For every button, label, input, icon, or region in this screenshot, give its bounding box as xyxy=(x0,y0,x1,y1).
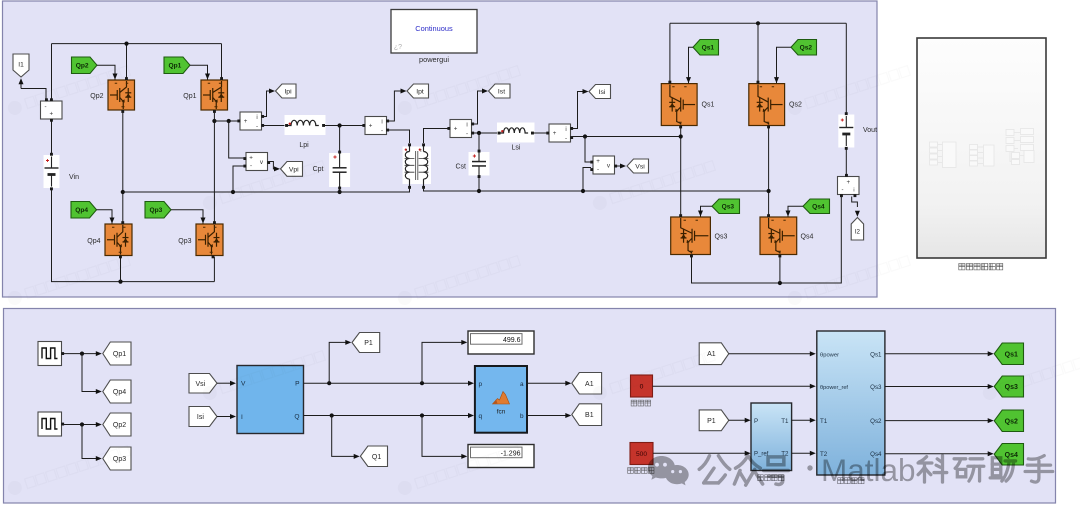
watermark char GONG xyxy=(699,456,730,483)
svg-text:Isi: Isi xyxy=(599,89,606,96)
label Qs2 xyxy=(789,102,802,109)
IGBT Qs2 xyxy=(749,81,785,129)
label Cst xyxy=(456,164,467,171)
svg-text:Qs1: Qs1 xyxy=(870,352,882,359)
label Cpt xyxy=(313,166,324,173)
svg-text:i: i xyxy=(381,120,382,126)
svg-text:+: + xyxy=(553,130,557,137)
wire M1 top to DC bus xyxy=(51,44,53,100)
svg-text:Qp1: Qp1 xyxy=(168,63,181,70)
pulse generator 2 xyxy=(38,412,64,436)
svg-text:A1: A1 xyxy=(585,381,594,388)
watermark middle dot xyxy=(807,465,812,470)
label Lsi xyxy=(512,145,521,152)
svg-text:i: i xyxy=(466,123,467,129)
watermark char YAN xyxy=(954,459,984,481)
wire Q branch to Q1 tag xyxy=(332,416,360,459)
svg-text:q: q xyxy=(479,413,483,420)
bottom control panel background xyxy=(4,309,1056,504)
goto tag Qs2 (bottom) xyxy=(994,410,1023,432)
junction Vsi- / secondary rail xyxy=(581,189,585,193)
capacitor Cst xyxy=(469,150,490,178)
subsystem power-control block xyxy=(751,403,792,471)
svg-text:Cst: Cst xyxy=(456,164,467,171)
svg-text:¿?: ¿? xyxy=(394,44,402,51)
wire Qp2-Qp4 leg xyxy=(122,112,124,223)
label Qp3 xyxy=(178,238,191,245)
goto tag P1 xyxy=(352,333,380,353)
goto tag I1 xyxy=(13,54,29,77)
junction Qp1 emitter / AC branch xyxy=(212,119,216,123)
wire bus to Qs1 collector xyxy=(669,23,671,82)
svg-text:i: i xyxy=(565,127,566,133)
inductor Lsi xyxy=(497,123,535,143)
wire pg2 branch to Qp3 tag xyxy=(82,425,102,462)
junction Q to display xyxy=(420,413,424,417)
svg-text:P1: P1 xyxy=(364,340,373,347)
svg-text:Qs1: Qs1 xyxy=(1005,351,1018,358)
junction P to P1 xyxy=(327,381,331,385)
junction Vsi+ branch xyxy=(583,134,587,138)
current measurement M1 (input) xyxy=(41,98,63,121)
svg-text:Lpi: Lpi xyxy=(299,142,309,149)
svg-text:-: - xyxy=(597,166,599,173)
wire arrow into I1 xyxy=(19,78,24,88)
svg-text:Qs1: Qs1 xyxy=(702,45,715,52)
svg-text:Qp2: Qp2 xyxy=(90,93,103,100)
svg-text:Matlab: Matlab xyxy=(821,452,916,488)
IGBT Qp4 xyxy=(105,221,132,258)
from tag A1 xyxy=(699,343,729,365)
junction Vpi- branch on return rail xyxy=(231,190,235,194)
svg-text:+: + xyxy=(454,126,458,133)
wire Ipt- to transformer primary xyxy=(388,130,410,143)
from tag Qs2 xyxy=(791,40,817,56)
svg-text:-: - xyxy=(466,130,468,137)
wire constant0 to sync block xyxy=(653,384,816,389)
current measurement M6 (output) xyxy=(838,174,860,197)
svg-text:Ipi: Ipi xyxy=(284,88,292,95)
goto tag Qp2 (bottom) xyxy=(103,413,131,436)
svg-text:Qs3: Qs3 xyxy=(715,234,728,241)
svg-text:i: i xyxy=(256,115,257,121)
voltage measurement Vsi sensor xyxy=(590,156,617,174)
label Qp4 xyxy=(87,238,100,245)
watermark wechat icon xyxy=(648,456,689,485)
IGBT Qp1 xyxy=(201,77,228,113)
goto tag A1 xyxy=(572,373,602,395)
svg-text:+: + xyxy=(369,123,373,130)
wire Lpi to Ipt sensor xyxy=(325,125,364,127)
svg-text:Qp4: Qp4 xyxy=(87,238,100,245)
wire Qs4 emitter down xyxy=(779,256,781,283)
wire Vsi- branch xyxy=(583,168,591,192)
junction secondary bus / Qs2 leg xyxy=(756,21,760,25)
label Qp2 xyxy=(90,93,103,100)
wire Qs3 gate xyxy=(698,206,712,216)
svg-text:Qp1: Qp1 xyxy=(183,93,196,100)
wire A1 to sync block xyxy=(729,351,816,356)
wire bus to Vout xyxy=(845,23,847,113)
wire bus to Qp2 collector xyxy=(126,44,128,79)
wire branch to Cst xyxy=(478,133,480,150)
wire Cpt to primary return rail xyxy=(339,190,341,193)
label Qs3 xyxy=(715,234,728,241)
svg-text:Qs4: Qs4 xyxy=(1005,452,1018,459)
wire Vpi- branch xyxy=(233,166,244,192)
junction Cst top branch xyxy=(477,131,481,135)
wire constant500 to power-control block xyxy=(653,451,751,456)
wire Qp4 gate xyxy=(97,210,115,224)
svg-text:Qp4: Qp4 xyxy=(113,389,126,396)
svg-text:Qp2: Qp2 xyxy=(113,422,126,429)
ghost blocks inside waveform subsystem xyxy=(930,129,1035,168)
junction left leg / primary return rail xyxy=(121,190,125,194)
DC voltage source Vout xyxy=(838,112,854,150)
svg-text:-: - xyxy=(565,135,567,142)
goto tag Ist xyxy=(489,84,511,98)
wire leg midpoint to Ipi sensor xyxy=(214,120,237,122)
wire transformer primary bottom to return rail xyxy=(123,189,410,192)
wire Ipt output xyxy=(388,89,407,122)
svg-text:p: p xyxy=(479,381,483,388)
wire pg2 to Qp2 tag xyxy=(64,422,102,427)
watermark char ZHONG xyxy=(734,456,762,485)
from tag Qs4 xyxy=(803,199,830,214)
voltage measurement Vpi sensor xyxy=(243,153,270,171)
constant block power setpoint 500 xyxy=(630,443,653,465)
IGBT Qs3 xyxy=(671,214,711,257)
wire sync Qs3 out xyxy=(885,384,994,389)
watermark char ZHU xyxy=(990,458,1015,481)
current measurement Ipi sensor xyxy=(237,112,264,130)
wire Ist- to Lsi xyxy=(473,132,497,134)
wire Vsi to power block xyxy=(217,381,236,386)
label Qs1 xyxy=(702,102,715,109)
svg-text:+: + xyxy=(596,158,600,165)
wire bus to Qs2 collector xyxy=(757,23,759,82)
junction pg1 branch xyxy=(80,352,84,356)
wire Cst to secondary rail xyxy=(478,178,480,191)
svg-text:Qs2: Qs2 xyxy=(1005,418,1018,425)
svg-text:Q1: Q1 xyxy=(372,454,381,461)
transformer T1 xyxy=(405,143,429,188)
wire sync Qs2 out xyxy=(885,418,994,423)
watermark char KE xyxy=(918,456,947,483)
svg-text:Continuous: Continuous xyxy=(415,24,453,33)
wire Qs1-Qs3 leg xyxy=(680,127,682,216)
capacitor Cpt xyxy=(329,151,350,190)
svg-text:Isi: Isi xyxy=(197,414,204,421)
svg-text:Vsi: Vsi xyxy=(635,163,645,170)
IGBT Qp2 xyxy=(108,77,135,113)
svg-text:-: - xyxy=(381,127,383,134)
wire branch to Cpt xyxy=(339,126,341,152)
wire Isi output xyxy=(572,89,589,129)
display block Q value xyxy=(468,445,534,468)
subsystem synchronization-control block xyxy=(817,331,885,475)
svg-text:Lsi: Lsi xyxy=(512,145,521,152)
wire transformer secondary top to Ist sensor xyxy=(424,129,449,144)
goto tag Qp1 (bottom) xyxy=(103,342,131,365)
from tag P1 xyxy=(699,410,729,431)
wire sync Qs1 out xyxy=(885,351,994,356)
wire Qs1 gate xyxy=(686,47,693,83)
current measurement Ist sensor xyxy=(447,120,474,138)
label Vin xyxy=(69,174,79,181)
wire P branch to display xyxy=(422,340,467,383)
wire bus to Qp1 collector xyxy=(221,44,223,79)
MATLAB function block fcn xyxy=(475,366,527,433)
inductor Lpi xyxy=(285,115,326,135)
subsystem PQ-calculation block xyxy=(237,366,304,434)
wire Vin- to bottom return rail xyxy=(52,190,215,282)
svg-text:500: 500 xyxy=(636,451,647,458)
current measurement Isi sensor xyxy=(546,124,573,142)
from tag Qs1 xyxy=(693,40,719,56)
from tag Vsi (bottom) xyxy=(189,374,217,394)
wire Qs4 gate xyxy=(786,206,804,216)
wire pg1 to Qp1 tag xyxy=(64,351,102,356)
svg-text:T1: T1 xyxy=(820,418,828,425)
svg-text:+: + xyxy=(244,118,248,125)
current measurement Ipt sensor xyxy=(362,117,389,135)
label Vout xyxy=(863,127,877,134)
svg-text:Qs2: Qs2 xyxy=(800,45,813,52)
svg-text:θpower: θpower xyxy=(820,353,839,359)
junction Cpt top branch xyxy=(338,123,342,127)
svg-text:T1: T1 xyxy=(781,418,789,425)
wire fcn b to B1 xyxy=(527,413,571,418)
powergui label xyxy=(419,55,449,64)
goto tag I2 xyxy=(851,218,863,241)
label power-angle (CJK) xyxy=(631,400,651,406)
top model panel background xyxy=(3,1,878,297)
wire sync Qs4 out xyxy=(885,451,994,456)
pulse generator 1 xyxy=(38,342,64,366)
goto tag B1 xyxy=(572,404,602,426)
goto tag Isi xyxy=(589,85,611,99)
wire Lsi to Isi sensor xyxy=(534,132,548,134)
wire Isi- to Qs leg rail xyxy=(572,136,681,138)
from tag Isi (bottom) xyxy=(189,407,217,427)
wire Qs2-Qs4 leg xyxy=(768,127,770,216)
wire Q output xyxy=(304,413,475,418)
svg-text:I2: I2 xyxy=(855,229,861,236)
wire M1 bottom to Vin+ xyxy=(51,121,53,156)
junction Qs4 emitter / bottom rail xyxy=(778,281,782,285)
from tag Qp1 xyxy=(164,57,190,74)
wire Qp2 gate xyxy=(97,65,118,79)
svg-text:P: P xyxy=(754,418,758,425)
DC voltage source Vin xyxy=(44,153,60,190)
label waveform module (CJK) xyxy=(959,264,1003,270)
svg-text:θpower_ref: θpower_ref xyxy=(820,385,848,391)
from tag Qp3 xyxy=(145,202,171,219)
wire Qp4 emitter to rail xyxy=(120,257,122,282)
watermark char SHOU xyxy=(1025,456,1053,483)
wire Ipi output xyxy=(263,89,275,117)
label sync-control (CJK) xyxy=(838,478,864,484)
svg-text:i: i xyxy=(853,188,854,194)
wire Ipi- to Lpi xyxy=(263,125,285,127)
svg-text:+: + xyxy=(49,111,53,118)
svg-text:Qp3: Qp3 xyxy=(149,207,162,214)
svg-text:Vout: Vout xyxy=(863,127,877,134)
goto tag Ipt xyxy=(407,84,429,98)
junction primary bus / Qp2 leg xyxy=(124,42,128,46)
wire Vout- to current sensor xyxy=(845,149,847,175)
wire T2 to sync xyxy=(792,451,816,456)
wire M6 i output to I2 xyxy=(852,197,860,217)
goto tag Qs4 (bottom) xyxy=(994,444,1023,466)
wire Qs3 emitter to bottom rail xyxy=(692,197,842,284)
label Qp1 xyxy=(183,93,196,100)
svg-text:P1: P1 xyxy=(707,418,716,425)
wire branch to Vsi+ xyxy=(585,137,591,163)
wire T1 to sync xyxy=(792,418,816,423)
svg-text:powergui: powergui xyxy=(419,55,449,64)
svg-text:+: + xyxy=(249,154,253,161)
svg-text:Vin: Vin xyxy=(69,174,79,181)
wire I1 to current sensor xyxy=(21,89,46,102)
svg-text:Qp2: Qp2 xyxy=(76,63,89,70)
label Lpi xyxy=(299,142,309,149)
svg-text:-: - xyxy=(842,188,844,194)
wire fcn a to A1 xyxy=(527,381,571,386)
from tag Qp4 xyxy=(71,202,97,219)
label power-size (CJK) xyxy=(628,468,654,474)
wire P1 to power-control block xyxy=(729,418,751,423)
goto tag Vsi xyxy=(627,159,649,173)
watermark char HAO xyxy=(764,457,789,485)
svg-text:-: - xyxy=(250,162,252,169)
svg-text:499.6: 499.6 xyxy=(503,337,521,344)
svg-text:a: a xyxy=(520,381,524,388)
junction Cst / secondary rail xyxy=(477,189,481,193)
svg-text:2: 2 xyxy=(420,148,422,152)
goto tag Qs3 (bottom) xyxy=(994,376,1023,397)
svg-text:Qs1: Qs1 xyxy=(702,102,715,109)
goto tag Qp4 (bottom) xyxy=(103,380,131,403)
svg-text:Vsi: Vsi xyxy=(196,381,206,388)
svg-text:Ipt: Ipt xyxy=(416,88,424,95)
svg-text:Qp4: Qp4 xyxy=(75,207,88,214)
wire Vpi output xyxy=(269,162,280,172)
svg-text:Qs3: Qs3 xyxy=(870,384,882,391)
subsystem waveform-observation box xyxy=(917,38,1046,258)
label Qs4 xyxy=(801,234,814,241)
junction bottom rail / Qp4 emitter xyxy=(118,280,122,284)
wire P branch to P1 tag xyxy=(329,340,351,383)
goto tag Vpi xyxy=(281,162,303,177)
wire Qp1 gate xyxy=(190,65,210,79)
IGBT Qs1 xyxy=(661,81,697,129)
goto tag Q1 xyxy=(360,446,387,467)
wire Qs2 gate xyxy=(774,47,791,83)
svg-text:b: b xyxy=(520,413,524,420)
svg-text:Qp3: Qp3 xyxy=(178,238,191,245)
wire Qp1-Qp3 leg xyxy=(213,112,215,223)
from tag Qs3 xyxy=(712,199,740,214)
wire secondary top bus xyxy=(670,22,846,24)
wire P output xyxy=(304,381,475,386)
junction P to display xyxy=(420,381,424,385)
goto tag Ipi xyxy=(276,84,297,98)
IGBT Qs4 xyxy=(760,214,797,257)
svg-text:Qs4: Qs4 xyxy=(801,234,814,241)
svg-text:fcn: fcn xyxy=(497,409,506,416)
transformer T1 winding patch xyxy=(403,147,432,185)
wire primary top bus xyxy=(52,43,222,45)
svg-text:Qs2: Qs2 xyxy=(870,418,882,425)
wire Ist output xyxy=(473,89,488,125)
svg-text:Qp1: Qp1 xyxy=(113,351,126,358)
svg-text:I: I xyxy=(241,414,243,421)
wire pg1 branch to Qp4 tag xyxy=(82,354,102,394)
wire Q branch to display xyxy=(422,416,467,459)
svg-text:B1: B1 xyxy=(585,412,594,419)
wire Isi to power block xyxy=(217,414,236,419)
wire Vsi output xyxy=(616,164,626,169)
from tag Qp2 xyxy=(72,57,98,74)
powergui block xyxy=(391,10,477,54)
junction Q to Q1 xyxy=(330,413,334,417)
svg-text:I1: I1 xyxy=(18,62,24,69)
svg-text:P: P xyxy=(295,381,300,388)
display block P value xyxy=(468,331,534,354)
label power-control (CJK) xyxy=(758,475,784,481)
wire branch to Vpi+ xyxy=(229,121,244,158)
junction Qs2 leg / secondary rail xyxy=(767,189,771,193)
junction Qs1 leg / AC rail xyxy=(679,134,683,138)
svg-text:Ist: Ist xyxy=(498,88,505,95)
svg-text:Qs3: Qs3 xyxy=(722,204,735,211)
svg-text:-: - xyxy=(44,104,46,111)
constant block power angle 0 xyxy=(631,375,653,397)
watermark text Matlab xyxy=(821,452,916,488)
wire Qp3 emitter to rail xyxy=(213,257,215,282)
goto tag Qp3 (bottom) xyxy=(103,447,131,470)
junction Vpi+ branch xyxy=(227,119,231,123)
svg-text:+: + xyxy=(846,179,850,186)
wire Qp3 gate xyxy=(171,210,206,224)
svg-text:-: - xyxy=(256,123,258,130)
goto tag Qs1 (bottom) xyxy=(994,343,1023,365)
svg-text:1: 1 xyxy=(406,148,408,152)
IGBT Qp3 xyxy=(196,221,223,258)
svg-text:Q: Q xyxy=(294,413,299,420)
svg-text:Qs4: Qs4 xyxy=(812,204,825,211)
junction pg2 branch xyxy=(80,422,84,426)
junction Cpt / return rail xyxy=(338,190,342,194)
wire transformer secondary bottom to secondary rail xyxy=(424,189,769,191)
